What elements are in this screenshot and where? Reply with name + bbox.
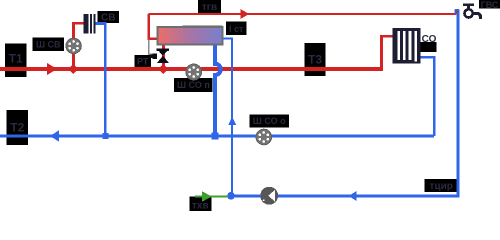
svg-text:тцир: тцир xyxy=(430,181,453,192)
label tgv xyxy=(198,0,221,13)
node junction stageII/T2 xyxy=(211,132,218,139)
tap GVS faucet xyxy=(463,3,481,18)
wire T2 main horizontal xyxy=(0,134,434,137)
wire T1 main red xyxy=(0,67,383,71)
node junction T1/branch xyxy=(68,64,78,74)
wire red gvs riser xyxy=(149,14,159,39)
arrow stage I up xyxy=(228,117,236,126)
wire stage II thick blue with hop xyxy=(215,45,221,134)
arrow tgv right xyxy=(240,9,249,19)
node GVS blue square xyxy=(454,9,459,15)
label Sh SV xyxy=(33,38,64,52)
svg-text:Т1: Т1 xyxy=(9,52,23,66)
label T1 xyxy=(5,43,27,77)
wire T3 riser red xyxy=(382,36,393,71)
svg-text:Т2: Т2 xyxy=(10,121,24,135)
label thv xyxy=(189,197,211,212)
label tcir xyxy=(425,179,458,192)
wire gvs drop blue xyxy=(231,13,458,196)
label SV xyxy=(98,11,120,24)
meter SV bars xyxy=(83,14,95,34)
wire sensor link gray xyxy=(149,40,153,55)
flange washer Sh SV xyxy=(66,38,81,53)
label RT xyxy=(135,55,151,67)
wire meter out blue xyxy=(96,24,106,137)
wire red branch to meter vertical xyxy=(73,23,84,69)
node circulation junction xyxy=(227,192,235,200)
wire cold water green xyxy=(195,196,231,198)
svg-text:I ст: I ст xyxy=(229,24,244,34)
svg-text:СО: СО xyxy=(422,34,437,45)
wire T2 main blue xyxy=(421,57,435,136)
heat exchanger U1 xyxy=(157,26,222,45)
svg-text:ГВС: ГВС xyxy=(481,0,499,10)
wire red valve stub xyxy=(162,45,165,69)
svg-text:Ш СВ: Ш СВ xyxy=(36,40,61,50)
wire tgv top red xyxy=(149,13,456,15)
label Sh SO o xyxy=(250,115,290,128)
arrow T2 left xyxy=(50,130,59,141)
node junction meter/T2 xyxy=(102,133,108,139)
wire stage I blue xyxy=(222,39,232,196)
label I st xyxy=(226,22,247,36)
flange washer Sh SO p xyxy=(186,64,202,80)
pump P1 xyxy=(261,188,277,204)
svg-text:Ш СО о: Ш СО о xyxy=(253,116,286,126)
arrow circulation left xyxy=(349,191,357,201)
label SO xyxy=(420,34,437,52)
svg-text:СВ: СВ xyxy=(101,13,115,24)
svg-text:Ш СО п: Ш СО п xyxy=(177,80,210,90)
arrow T1 right xyxy=(47,63,57,75)
label T2 xyxy=(7,110,28,145)
valve RT control xyxy=(150,49,169,63)
svg-text:РТ: РТ xyxy=(137,56,149,66)
arrow cold water right xyxy=(202,191,212,201)
svg-text:Т3: Т3 xyxy=(308,53,322,67)
label GVS xyxy=(479,0,500,10)
label Sh SO p xyxy=(174,78,212,92)
node junction T1/valve xyxy=(158,64,168,74)
flange washer Sh SO o xyxy=(256,129,272,145)
svg-text:тгв: тгв xyxy=(202,2,217,13)
radiator SO xyxy=(393,28,421,64)
svg-text:тхв: тхв xyxy=(192,201,209,211)
label T3 xyxy=(305,43,326,76)
